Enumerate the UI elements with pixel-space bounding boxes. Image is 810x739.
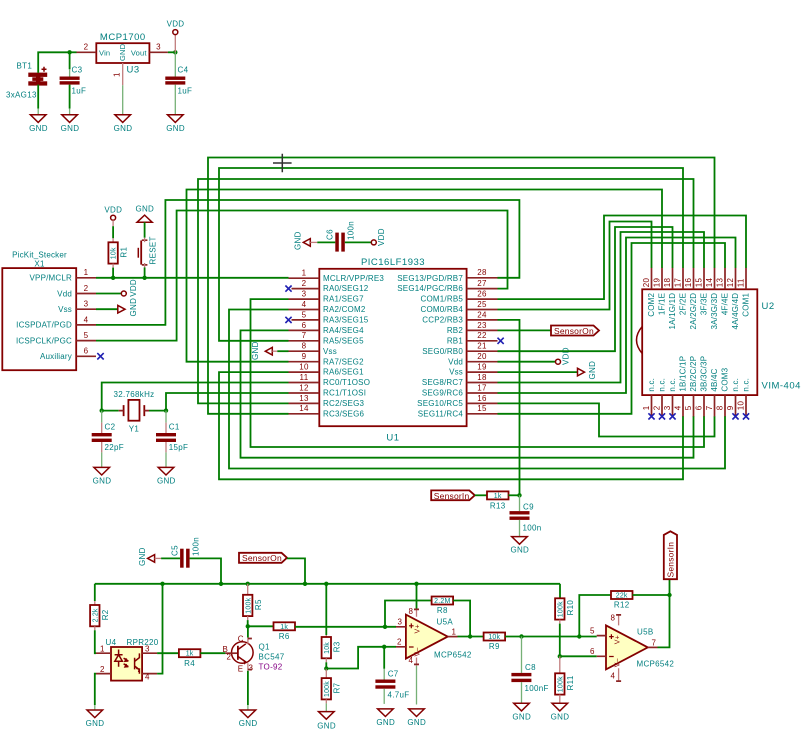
svg-text:GND: GND bbox=[129, 298, 138, 317]
svg-text:GND: GND bbox=[61, 124, 80, 133]
svg-text:7: 7 bbox=[705, 405, 714, 410]
svg-text:10: 10 bbox=[299, 363, 309, 372]
wire VDD to R1 bbox=[112, 226, 114, 238]
wire X1 pin4 (ICSPDAT) up-over to U1 pin28 bbox=[96, 200, 519, 325]
svg-text:11: 11 bbox=[737, 278, 746, 287]
svg-text:RPR220: RPR220 bbox=[127, 638, 159, 647]
resistor R10 100k bbox=[555, 598, 575, 623]
svg-text:19: 19 bbox=[477, 363, 487, 372]
capacitor C5 100n bbox=[161, 537, 221, 584]
pin 3 stub U3 bbox=[149, 51, 168, 53]
svg-text:5: 5 bbox=[84, 331, 89, 340]
node junction rail/C5 bbox=[219, 582, 223, 586]
wire junction to U3 pin2 bbox=[70, 51, 77, 53]
power VDD right of C6 bbox=[371, 228, 386, 246]
wire battery bottom to GND bbox=[37, 85, 39, 109]
svg-text:2.2k: 2.2k bbox=[92, 608, 99, 622]
svg-text:COM2: COM2 bbox=[647, 292, 656, 316]
svg-text:MCP6542: MCP6542 bbox=[434, 651, 472, 660]
ground bbox=[29, 115, 48, 133]
wire C4 to GND bbox=[174, 85, 176, 115]
svg-text:CCP2/RB3: CCP2/RB3 bbox=[422, 316, 463, 325]
wire R3 to node bbox=[325, 662, 327, 668]
svg-text:R8: R8 bbox=[437, 606, 448, 615]
svg-text:32.768kHz: 32.768kHz bbox=[114, 390, 155, 399]
svg-text:SEG13/PGD/RB7: SEG13/PGD/RB7 bbox=[397, 274, 463, 283]
node junction R5/R6/Q1 bbox=[246, 624, 250, 628]
svg-text:100k: 100k bbox=[245, 597, 252, 613]
wire COM1/RB5 pin26 to U2 pin11 bbox=[498, 216, 747, 300]
svg-text:C6: C6 bbox=[326, 229, 335, 240]
svg-text:C4: C4 bbox=[178, 66, 189, 75]
pin 8 stub U1 Vss bbox=[289, 350, 320, 352]
svg-text:22: 22 bbox=[477, 331, 487, 340]
svg-text:C8: C8 bbox=[525, 663, 536, 672]
node junction R9/C8 bbox=[519, 634, 523, 638]
wire U4 pin4 up to rail bbox=[157, 584, 162, 674]
svg-text:E: E bbox=[238, 665, 244, 674]
capacitor C1 15pF bbox=[156, 411, 188, 468]
node junction R12 tap bbox=[577, 634, 581, 638]
wire R6 to U5A pin3 bbox=[295, 626, 396, 628]
svg-text:5: 5 bbox=[590, 627, 595, 636]
svg-text:1A/1G/1D: 1A/1G/1D bbox=[668, 293, 677, 330]
svg-text:8: 8 bbox=[302, 342, 307, 351]
svg-text:GND: GND bbox=[166, 124, 185, 133]
wire R10 to node bbox=[559, 624, 561, 657]
svg-text:6: 6 bbox=[695, 405, 704, 410]
wire RC3/SEG6 pin14 to U2 pin14 bbox=[208, 158, 715, 414]
svg-text:GND: GND bbox=[251, 341, 260, 360]
svg-text:R6: R6 bbox=[279, 632, 290, 641]
wire node to Q1 collector bbox=[247, 626, 249, 637]
IC U1 PIC16LF1933 bbox=[319, 257, 466, 444]
capacitor C8 100nF bbox=[511, 637, 548, 704]
ground bbox=[61, 115, 80, 133]
pin 13 stub U1 bbox=[289, 402, 320, 404]
svg-text:VDD: VDD bbox=[377, 228, 386, 246]
svg-text:4: 4 bbox=[409, 656, 414, 665]
svg-text:1: 1 bbox=[452, 628, 457, 637]
wire RA6/SEG1 pin10 to U2 pin4 bbox=[219, 372, 683, 479]
svg-text:SEG0/RB0: SEG0/RB0 bbox=[422, 347, 463, 356]
node junction VDD/C4 bbox=[173, 50, 177, 54]
svg-text:U5B: U5B bbox=[637, 628, 653, 637]
svg-text:17: 17 bbox=[674, 278, 683, 288]
svg-text:VIM-404: VIM-404 bbox=[762, 381, 801, 392]
wire C3 to GND bbox=[69, 85, 71, 109]
wire U4 pin2 to GND bbox=[95, 674, 96, 705]
pin 1 stub U1 bbox=[289, 277, 320, 279]
wire battery top to junction bbox=[38, 52, 69, 73]
svg-text:R7: R7 bbox=[333, 682, 342, 693]
pin 27 stub U1 bbox=[467, 288, 498, 290]
svg-text:2: 2 bbox=[227, 653, 232, 662]
pin 19 stub U1 Vss bbox=[467, 371, 498, 373]
svg-text:1uF: 1uF bbox=[178, 87, 193, 96]
wire flag to R13 bbox=[475, 494, 487, 496]
svg-text:RC1/T1OSI: RC1/T1OSI bbox=[323, 389, 366, 398]
pin 15 stub U1 bbox=[467, 413, 498, 415]
wire SEG9/RC6 pin17 to U2 pin12 bbox=[498, 238, 736, 394]
svg-text:20: 20 bbox=[477, 352, 487, 361]
svg-text:4: 4 bbox=[674, 405, 683, 410]
svg-text:VDD: VDD bbox=[104, 206, 122, 215]
svg-text:12: 12 bbox=[726, 278, 735, 288]
wire U1 pin11 to crystal left bbox=[102, 383, 289, 411]
pin 24 stub U1 bbox=[467, 319, 498, 321]
svg-text:GND: GND bbox=[29, 124, 48, 133]
svg-text:100k: 100k bbox=[557, 601, 564, 617]
pin 28 stub U1 bbox=[467, 277, 498, 279]
U2 bottom pin stubs 1..10 bbox=[642, 395, 746, 416]
node junction R3/R7 bbox=[324, 666, 328, 670]
ground bbox=[376, 709, 395, 727]
pin 6 stub U1 bbox=[289, 329, 320, 331]
no-connect U2 pin9 bbox=[732, 413, 738, 419]
svg-text:100n: 100n bbox=[347, 221, 356, 240]
wire X1 pin1 to U1 pin1 (MCLR net) bbox=[96, 277, 289, 279]
svg-text:COM1: COM1 bbox=[742, 292, 751, 316]
svg-text:R12: R12 bbox=[614, 601, 630, 610]
pin 20 stub U1 Vdd bbox=[467, 361, 498, 363]
svg-text:GND: GND bbox=[157, 477, 176, 486]
svg-text:19: 19 bbox=[653, 278, 662, 288]
svg-text:14: 14 bbox=[705, 278, 714, 288]
power GND left of C5 (left arrow) bbox=[138, 547, 161, 566]
power VDD bbox=[167, 20, 185, 53]
pin 2 stub U3 bbox=[77, 51, 97, 53]
ground bbox=[86, 710, 105, 728]
no-connect U1 pin2 bbox=[285, 286, 291, 292]
svg-text:Vss: Vss bbox=[58, 305, 72, 314]
node junction BT1/C3 bbox=[67, 50, 71, 54]
svg-text:R4: R4 bbox=[184, 659, 195, 668]
svg-text:Vss: Vss bbox=[449, 368, 463, 377]
svg-text:2: 2 bbox=[100, 665, 105, 674]
power GND at X1 pin3 (right arrow) bbox=[96, 298, 138, 317]
no-connect U2 pin3 bbox=[669, 413, 675, 419]
svg-text:6: 6 bbox=[302, 321, 307, 330]
svg-text:C5: C5 bbox=[171, 545, 180, 556]
node junction rail/U5A pin8 bbox=[414, 582, 418, 586]
svg-text:100n: 100n bbox=[523, 524, 542, 533]
wire RA1/SEG7 pin3 to U2 pin6 bbox=[251, 299, 705, 447]
svg-text:U2: U2 bbox=[762, 301, 775, 312]
svg-text:BC547: BC547 bbox=[259, 653, 285, 662]
svg-text:3: 3 bbox=[156, 43, 161, 52]
svg-text:4A/4G/4D: 4A/4G/4D bbox=[731, 293, 740, 330]
wire RC2/SEG3 pin13 to U2 pin16 bbox=[198, 179, 694, 403]
regulator U3 MCP1700 bbox=[96, 32, 149, 76]
pushbutton RESET bbox=[138, 236, 157, 267]
svg-text:RA3/SEG15: RA3/SEG15 bbox=[323, 316, 369, 325]
svg-text:8: 8 bbox=[716, 405, 725, 410]
wire reset to MCLR net bbox=[144, 267, 146, 277]
pin 3 stub X1 bbox=[76, 308, 96, 310]
svg-text:3B/3C/3P: 3B/3C/3P bbox=[700, 356, 709, 392]
svg-text:GND: GND bbox=[118, 43, 127, 61]
wire R3/R7 node to U5A pin2 bbox=[326, 647, 384, 669]
svg-text:18: 18 bbox=[477, 373, 487, 382]
svg-text:U4: U4 bbox=[106, 638, 117, 647]
no-connect U2 pin10 bbox=[743, 413, 749, 419]
svg-text:R11: R11 bbox=[566, 675, 575, 690]
wire V+ rail bbox=[95, 583, 560, 585]
power GND at U1 pin19 (right arrow) bbox=[498, 361, 598, 380]
node junction crystal/C2 bbox=[100, 408, 104, 412]
svg-text:2A/2G/2D: 2A/2G/2D bbox=[689, 293, 698, 330]
svg-text:21: 21 bbox=[477, 342, 487, 351]
svg-text:4F/4E: 4F/4E bbox=[721, 293, 730, 315]
opamp U5B MCP6542 bbox=[590, 614, 674, 682]
svg-text:13: 13 bbox=[716, 278, 725, 288]
svg-text:4.7uF: 4.7uF bbox=[388, 691, 410, 700]
svg-text:23: 23 bbox=[477, 321, 487, 330]
svg-text:RA0/SEG12: RA0/SEG12 bbox=[323, 284, 369, 293]
svg-text:5: 5 bbox=[302, 310, 307, 319]
svg-text:8: 8 bbox=[409, 607, 414, 616]
LCD U2 VIM-404 bbox=[637, 289, 801, 395]
svg-text:V+: V+ bbox=[615, 635, 622, 644]
node junction R12/output/SensorIn bbox=[667, 593, 671, 597]
svg-text:U5A: U5A bbox=[437, 618, 454, 627]
pin 23 stub U1 bbox=[467, 329, 498, 331]
wire R5 to collector node bbox=[247, 620, 249, 626]
svg-text:U1: U1 bbox=[386, 433, 399, 444]
svg-text:RA5/SEG5: RA5/SEG5 bbox=[323, 336, 364, 345]
svg-text:1k: 1k bbox=[186, 651, 194, 658]
svg-text:SensorIn: SensorIn bbox=[434, 491, 470, 501]
svg-text:100k: 100k bbox=[557, 676, 564, 692]
battery BT1 bbox=[6, 62, 47, 100]
svg-text:16: 16 bbox=[684, 278, 693, 288]
ground bbox=[317, 712, 336, 731]
node junction C7 tap bbox=[382, 645, 386, 649]
wire GND to reset switch bbox=[144, 222, 146, 237]
svg-text:n.c.: n.c. bbox=[658, 378, 667, 392]
svg-text:6: 6 bbox=[84, 347, 89, 356]
svg-text:V+: V+ bbox=[415, 624, 422, 633]
power GND at U1 pin8 (left arrow) bbox=[251, 341, 289, 360]
wire R1 to MCLR net bbox=[112, 268, 114, 278]
pin 7 stub U1 bbox=[289, 340, 320, 342]
svg-text:SEG9/RC6: SEG9/RC6 bbox=[422, 389, 464, 398]
svg-text:Y1: Y1 bbox=[129, 425, 140, 434]
U2 top pin stubs 20..11 bbox=[642, 268, 746, 289]
svg-text:GND: GND bbox=[551, 712, 570, 721]
no-connect U2 pin1 bbox=[648, 413, 654, 419]
svg-text:n.c.: n.c. bbox=[668, 378, 677, 392]
pin 1 stub U3 (GND) bbox=[122, 63, 124, 85]
svg-text:GND: GND bbox=[510, 546, 529, 555]
svg-text:16: 16 bbox=[477, 394, 487, 403]
svg-text:2: 2 bbox=[653, 405, 662, 410]
svg-text:3xAG13: 3xAG13 bbox=[6, 91, 37, 100]
wire SEG10/RC5 pin16 to U2 pin7 bbox=[498, 403, 715, 436]
svg-text:3: 3 bbox=[249, 664, 254, 673]
node junction rail/R3 bbox=[324, 582, 328, 586]
wire rail down to R2 bbox=[94, 584, 96, 601]
capacitor C3 bbox=[60, 52, 87, 95]
svg-text:SensorOn: SensorOn bbox=[242, 553, 282, 563]
wire RA5/SEG5 pin7 to U2 pin17 bbox=[219, 168, 683, 341]
wire node to pin2 stub bbox=[384, 646, 396, 648]
wire SEG8/RC7 pin18 to U2 pin15 bbox=[498, 232, 705, 383]
node junction R8/output bbox=[468, 634, 472, 638]
svg-text:12: 12 bbox=[299, 383, 309, 392]
svg-text:26: 26 bbox=[477, 290, 487, 299]
wire tap up to R12 bbox=[579, 595, 611, 637]
power GND above RESET (up arrow) bbox=[135, 205, 154, 223]
svg-text:1B/1C/1P: 1B/1C/1P bbox=[679, 356, 688, 392]
svg-text:COM3: COM3 bbox=[721, 367, 730, 391]
svg-text:VDD: VDD bbox=[167, 20, 185, 29]
svg-text:1F/1E: 1F/1E bbox=[658, 293, 667, 315]
svg-text:C3: C3 bbox=[72, 66, 83, 75]
svg-text:13: 13 bbox=[299, 394, 309, 403]
svg-text:ICSPCLK/PGC: ICSPCLK/PGC bbox=[16, 336, 72, 345]
svg-text:4: 4 bbox=[302, 300, 307, 309]
ground bbox=[551, 703, 570, 721]
svg-text:MCP6542: MCP6542 bbox=[637, 660, 675, 669]
pin 5 stub U1 (n.c.) bbox=[292, 319, 320, 321]
pin 2 stub U1 (n.c.) bbox=[292, 288, 320, 290]
power VDD above R1 bbox=[104, 206, 122, 227]
resistor R6 1k bbox=[274, 622, 296, 641]
wire output to SensorIn riser bbox=[658, 579, 670, 647]
svg-text:R10: R10 bbox=[566, 600, 575, 616]
svg-text:25: 25 bbox=[477, 300, 487, 309]
svg-text:22pF: 22pF bbox=[105, 443, 124, 452]
svg-text:1: 1 bbox=[302, 269, 307, 278]
sheet anchor cross bbox=[273, 154, 292, 173]
wire U3 pin3 to VDD node bbox=[168, 51, 175, 53]
resistor R5 100k bbox=[243, 584, 263, 620]
svg-text:RC0/T1OSO: RC0/T1OSO bbox=[323, 378, 370, 387]
capacitor C4 bbox=[165, 52, 192, 95]
svg-text:VDD: VDD bbox=[562, 347, 571, 365]
svg-text:n.c.: n.c. bbox=[647, 378, 656, 392]
svg-text:ICSPDAT/PGD: ICSPDAT/PGD bbox=[16, 321, 72, 330]
svg-text:6: 6 bbox=[590, 647, 595, 656]
power VDD at X1 pin2 bbox=[96, 279, 138, 297]
feedback resistor R8 2.2M bbox=[385, 597, 470, 637]
svg-text:R9: R9 bbox=[489, 642, 500, 651]
resistor R7 100k bbox=[322, 669, 342, 704]
svg-text:3: 3 bbox=[84, 300, 89, 309]
pin 26 stub U1 bbox=[467, 298, 498, 300]
wire R9 to U5B pin5 bbox=[505, 636, 597, 638]
wire COM0/RB4 pin25 to U2 pin20 bbox=[498, 222, 652, 310]
svg-text:Vin: Vin bbox=[99, 48, 110, 57]
wire RA7/SEG2 pin9 to U2 pin19 bbox=[187, 190, 663, 362]
wire node to R6 bbox=[248, 625, 274, 627]
svg-text:10k: 10k bbox=[488, 634, 500, 641]
U5B output stub bbox=[648, 646, 658, 648]
svg-text:RB2: RB2 bbox=[447, 326, 464, 335]
node junction rail/U4pin4 bbox=[160, 582, 164, 586]
no-connect U1 pin5 bbox=[285, 317, 291, 323]
resistor R2 2.2k bbox=[90, 601, 110, 630]
power GND left of C6 (left arrow) bbox=[294, 231, 318, 250]
svg-text:15: 15 bbox=[695, 278, 704, 288]
svg-text:2B/2C/2P: 2B/2C/2P bbox=[689, 356, 698, 392]
svg-text:GND: GND bbox=[239, 719, 258, 728]
svg-text:SensorIn: SensorIn bbox=[665, 542, 675, 578]
svg-text:3A/3G/3D: 3A/3G/3D bbox=[710, 293, 719, 330]
pin 9 stub U1 bbox=[289, 361, 320, 363]
svg-text:2: 2 bbox=[302, 279, 307, 288]
U2 top pin names (rotated) bbox=[647, 292, 751, 329]
pin 14 stub U1 bbox=[289, 413, 320, 415]
svg-text:Vss: Vss bbox=[323, 347, 337, 356]
resistor R12 22k bbox=[611, 591, 633, 610]
pin 18 stub U1 bbox=[467, 382, 498, 384]
svg-text:2.2M: 2.2M bbox=[434, 598, 450, 605]
pin 5 stub X1 bbox=[76, 340, 96, 342]
svg-text:COM0/RB4: COM0/RB4 bbox=[421, 305, 464, 314]
svg-text:RA1/SEG7: RA1/SEG7 bbox=[323, 295, 364, 304]
U5A output stub bbox=[448, 636, 458, 638]
svg-text:18: 18 bbox=[663, 278, 672, 288]
svg-text:n.c.: n.c. bbox=[731, 378, 740, 392]
svg-text:C2: C2 bbox=[105, 423, 116, 432]
svg-text:2: 2 bbox=[84, 43, 89, 52]
svg-text:V−: V− bbox=[615, 658, 622, 667]
svg-text:1uF: 1uF bbox=[72, 87, 87, 96]
node junction R1/MCLR bbox=[111, 276, 115, 280]
svg-text:4B/4C: 4B/4C bbox=[710, 368, 719, 391]
no-connect U1 pin22 bbox=[498, 338, 504, 344]
svg-text:2: 2 bbox=[84, 284, 89, 293]
label flag SensorOn (bottom) bbox=[239, 553, 305, 584]
svg-text:V−: V− bbox=[415, 647, 422, 656]
svg-text:GND: GND bbox=[86, 719, 105, 728]
svg-text:MCLR/VPP/RE3: MCLR/VPP/RE3 bbox=[323, 274, 384, 283]
node junction RESET/MCLR bbox=[142, 276, 146, 280]
wire CCP2/RB3 pin24 down to SensorIn node bbox=[498, 320, 520, 495]
pin 16 stub U1 bbox=[467, 402, 498, 404]
svg-text:VPP/MCLR: VPP/MCLR bbox=[30, 274, 73, 283]
node junction rail/SensorOn bbox=[303, 582, 307, 586]
wire X1 pin5 (ICSPCLK) up-over to U1 pin27 bbox=[96, 211, 508, 341]
svg-text:3: 3 bbox=[398, 618, 403, 627]
svg-text:SEG8/RC7: SEG8/RC7 bbox=[422, 378, 464, 387]
wire RA2/COM2 pin4 to U2 pin8 bbox=[229, 310, 725, 469]
svg-text:SEG10/RC5: SEG10/RC5 bbox=[417, 399, 463, 408]
wire U4 pin3 to R4 bbox=[157, 652, 179, 654]
svg-text:24: 24 bbox=[477, 310, 487, 319]
svg-text:11: 11 bbox=[300, 373, 309, 382]
svg-text:C7: C7 bbox=[388, 670, 399, 679]
no-connect U2 pin2 bbox=[659, 413, 665, 419]
svg-text:3: 3 bbox=[663, 405, 672, 410]
resistor R3 10k bbox=[322, 584, 342, 663]
svg-text:Q1: Q1 bbox=[259, 643, 271, 652]
svg-text:100n: 100n bbox=[192, 537, 201, 556]
svg-text:RESET: RESET bbox=[149, 236, 158, 264]
svg-text:9: 9 bbox=[726, 405, 735, 410]
svg-text:GND: GND bbox=[294, 231, 303, 250]
svg-text:1: 1 bbox=[642, 405, 651, 410]
svg-text:10k: 10k bbox=[111, 247, 118, 259]
svg-text:100nF: 100nF bbox=[525, 684, 549, 693]
pin 4 stub U1 bbox=[289, 309, 320, 311]
ground bbox=[93, 467, 112, 485]
resistor R4 1k bbox=[179, 649, 201, 668]
ground bbox=[512, 703, 531, 721]
